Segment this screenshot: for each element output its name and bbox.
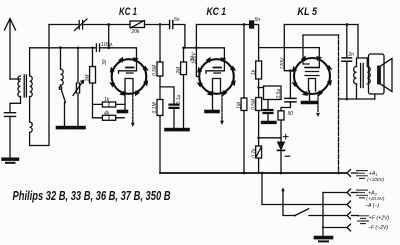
svg-text:0.5M: 0.5M	[251, 98, 257, 110]
svg-text:KL 5: KL 5	[298, 6, 318, 18]
svg-text:0.7k: 0.7k	[251, 148, 257, 158]
svg-text:0.1μ: 0.1μ	[176, 95, 182, 105]
svg-text:2n: 2n	[348, 52, 355, 58]
svg-text:KC 1: KC 1	[119, 6, 137, 18]
svg-text:2M: 2M	[176, 66, 182, 75]
svg-text:0.5M: 0.5M	[152, 64, 158, 76]
svg-text:+F (+2V): +F (+2V)	[369, 216, 390, 222]
svg-text:120V: 120V	[280, 57, 286, 69]
svg-text:(+100V): (+100V)	[367, 177, 384, 182]
svg-text:0.5μ: 0.5μ	[276, 89, 282, 99]
svg-text:120V: 120V	[191, 52, 197, 64]
svg-text:−F (−2V): −F (−2V)	[368, 225, 389, 231]
svg-text:20k: 20k	[131, 29, 141, 35]
svg-text:KC 1: KC 1	[207, 6, 227, 18]
svg-text:−A (−): −A (−)	[365, 203, 379, 209]
svg-text:1M: 1M	[236, 101, 242, 109]
svg-text:(+10.5V): (+10.5V)	[366, 196, 385, 201]
svg-text:5n: 5n	[255, 17, 261, 23]
svg-text:Philips 32 B, 33 B, 36 B, 37 B: Philips 32 B, 33 B, 36 B, 37 B, 350 B	[13, 189, 171, 203]
svg-text:30: 30	[102, 59, 108, 65]
svg-text:0.1M: 0.1M	[152, 102, 158, 114]
svg-text:2M: 2M	[85, 74, 91, 83]
svg-text:5n: 5n	[174, 17, 180, 23]
svg-text:4k: 4k	[104, 111, 110, 117]
svg-text:50: 50	[288, 111, 294, 117]
svg-text:1k: 1k	[251, 69, 257, 75]
svg-text:1k: 1k	[104, 97, 110, 103]
svg-text:100p.: 100p.	[101, 42, 114, 48]
